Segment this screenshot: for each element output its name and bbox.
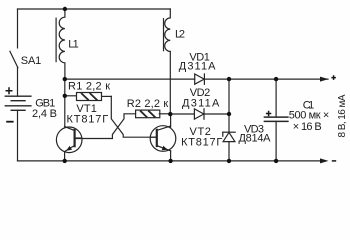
svg-text:КТ817Г: КТ817Г: [181, 137, 222, 149]
svg-text:L1: L1: [68, 38, 79, 50]
svg-text:Д311А: Д311А: [182, 97, 220, 109]
svg-text:R2 2,2 к: R2 2,2 к: [127, 98, 169, 110]
svg-text:L2: L2: [175, 29, 185, 41]
svg-text:Д814А: Д814А: [239, 132, 272, 144]
svg-text:R1 2,2 к: R1 2,2 к: [68, 80, 110, 92]
svg-text:SA1: SA1: [21, 55, 42, 67]
svg-text:8 В, 16 мА: 8 В, 16 мА: [337, 94, 348, 137]
svg-text:2,4 В: 2,4 В: [32, 108, 57, 120]
svg-text:× 16 В: × 16 В: [293, 121, 322, 133]
svg-text:Д311А: Д311А: [179, 60, 216, 72]
svg-text:КТ817Г: КТ817Г: [67, 114, 109, 126]
svg-text:500 мк ×: 500 мк ×: [289, 110, 330, 122]
